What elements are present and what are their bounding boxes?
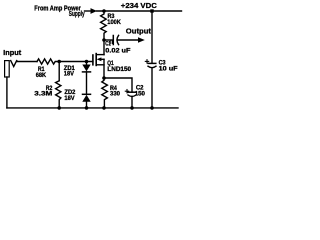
svg-text:3.3M: 3.3M [34, 91, 52, 98]
svg-text:Output: Output [126, 27, 152, 36]
node: R4 bottom [102, 106, 106, 110]
node: C3 bottom [150, 106, 154, 110]
label: ZD1 [64, 65, 75, 72]
label: 18V (ZD1) [64, 71, 75, 78]
zener diode ZD1 18V [82, 62, 90, 95]
label: C2 [136, 85, 144, 92]
label: C1 [105, 41, 111, 48]
wire: junction to gate [59, 61, 93, 63]
label: 150 [135, 90, 146, 97]
svg-text:Input: Input [3, 48, 22, 57]
transistor Q1 LND150 (depletion MOSFET) [93, 54, 104, 78]
label: R1 [38, 66, 45, 73]
label: Output [126, 27, 152, 36]
svg-text:Supply: Supply [69, 11, 85, 18]
svg-text:+234 VDC: +234 VDC [121, 1, 158, 10]
node: R3 top junction [102, 9, 106, 13]
label: ZD2 [64, 89, 75, 96]
input jack J1 [5, 61, 17, 77]
wire: jack tip to R1 [17, 61, 37, 63]
wire: source node to C2 [104, 78, 132, 92]
zener diode ZD2 18V [82, 94, 90, 108]
node: C3 top junction [150, 9, 153, 12]
svg-text:68K: 68K [36, 72, 47, 79]
wire: jack sleeve to ground rail [6, 77, 8, 108]
label: 0.02 uF [105, 47, 130, 54]
wire: +234V top rail [97, 10, 182, 12]
wire + arrow: output [118, 37, 145, 43]
resistor R4 [102, 78, 108, 108]
label: 330 [110, 91, 120, 98]
label: R3 [108, 13, 115, 20]
node: R2 bottom [57, 106, 61, 110]
node: drain / C1 junction [102, 38, 106, 42]
label: 100K [107, 19, 121, 26]
svg-text:0.02 uF: 0.02 uF [105, 47, 130, 54]
capacitor C3 10uF [148, 63, 156, 108]
svg-text:100K: 100K [107, 19, 121, 26]
label: 3.3M [34, 91, 52, 98]
node: source/R4/C2 junction [102, 76, 106, 80]
tick marks after C1 [111, 41, 113, 44]
plus sign C3 [145, 60, 148, 63]
label: +234 VDC [121, 1, 158, 10]
label: 18V (ZD2) [64, 95, 75, 102]
wire: bottom ground rail [7, 107, 178, 109]
svg-text:150: 150 [135, 90, 146, 97]
wire: down to R2 [58, 62, 60, 81]
plus sign C2 [125, 90, 128, 93]
resistor R2 [56, 81, 61, 108]
node: zener/gate junction [85, 60, 89, 64]
label: R4 [110, 85, 117, 92]
svg-text:330: 330 [110, 91, 120, 98]
label: R2 [46, 85, 53, 92]
svg-text:18V: 18V [64, 71, 75, 78]
label: 10 uF [159, 66, 178, 73]
resistor R3 [101, 11, 107, 40]
label: C3 [159, 60, 166, 67]
svg-text:LND150: LND150 [107, 66, 131, 73]
capacitor C2 150uF [128, 92, 136, 108]
label: Input [3, 48, 22, 57]
wire: C3 branch vertical [151, 11, 153, 63]
label: LND150 [107, 66, 131, 73]
svg-text:18V: 18V [64, 95, 75, 102]
node: ZD2 bottom [85, 106, 89, 110]
wire: node to C1 [104, 39, 113, 41]
capacitor C1 0.02uF [113, 35, 118, 44]
label: From Amp Power [34, 5, 81, 12]
resistor R1 [37, 59, 59, 64]
label: 68K [36, 72, 47, 79]
wire: drain vertical [103, 40, 105, 55]
svg-text:10 uF: 10 uF [159, 66, 178, 73]
node: C2 bottom [130, 106, 134, 110]
label: Q1 [107, 60, 114, 67]
label: Supply [69, 11, 85, 18]
feed arrow from amp power supply [85, 8, 98, 14]
node: R1/R2/gate junction [57, 60, 61, 64]
